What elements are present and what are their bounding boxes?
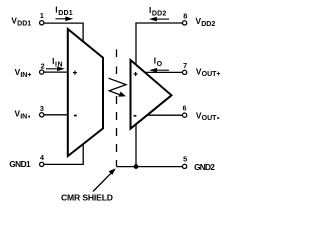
- svg-text:2: 2: [41, 61, 45, 70]
- svg-text:6: 6: [183, 104, 187, 113]
- svg-text:GND1: GND1: [9, 159, 31, 169]
- svg-text:4: 4: [40, 153, 44, 162]
- svg-text:3: 3: [40, 104, 44, 113]
- svg-text:1: 1: [40, 11, 44, 20]
- svg-text:8: 8: [183, 11, 187, 20]
- svg-text:GND2: GND2: [194, 162, 215, 172]
- svg-text:CMR SHIELD: CMR SHIELD: [61, 193, 113, 203]
- svg-text:5: 5: [183, 155, 187, 164]
- svg-text:7: 7: [183, 61, 187, 70]
